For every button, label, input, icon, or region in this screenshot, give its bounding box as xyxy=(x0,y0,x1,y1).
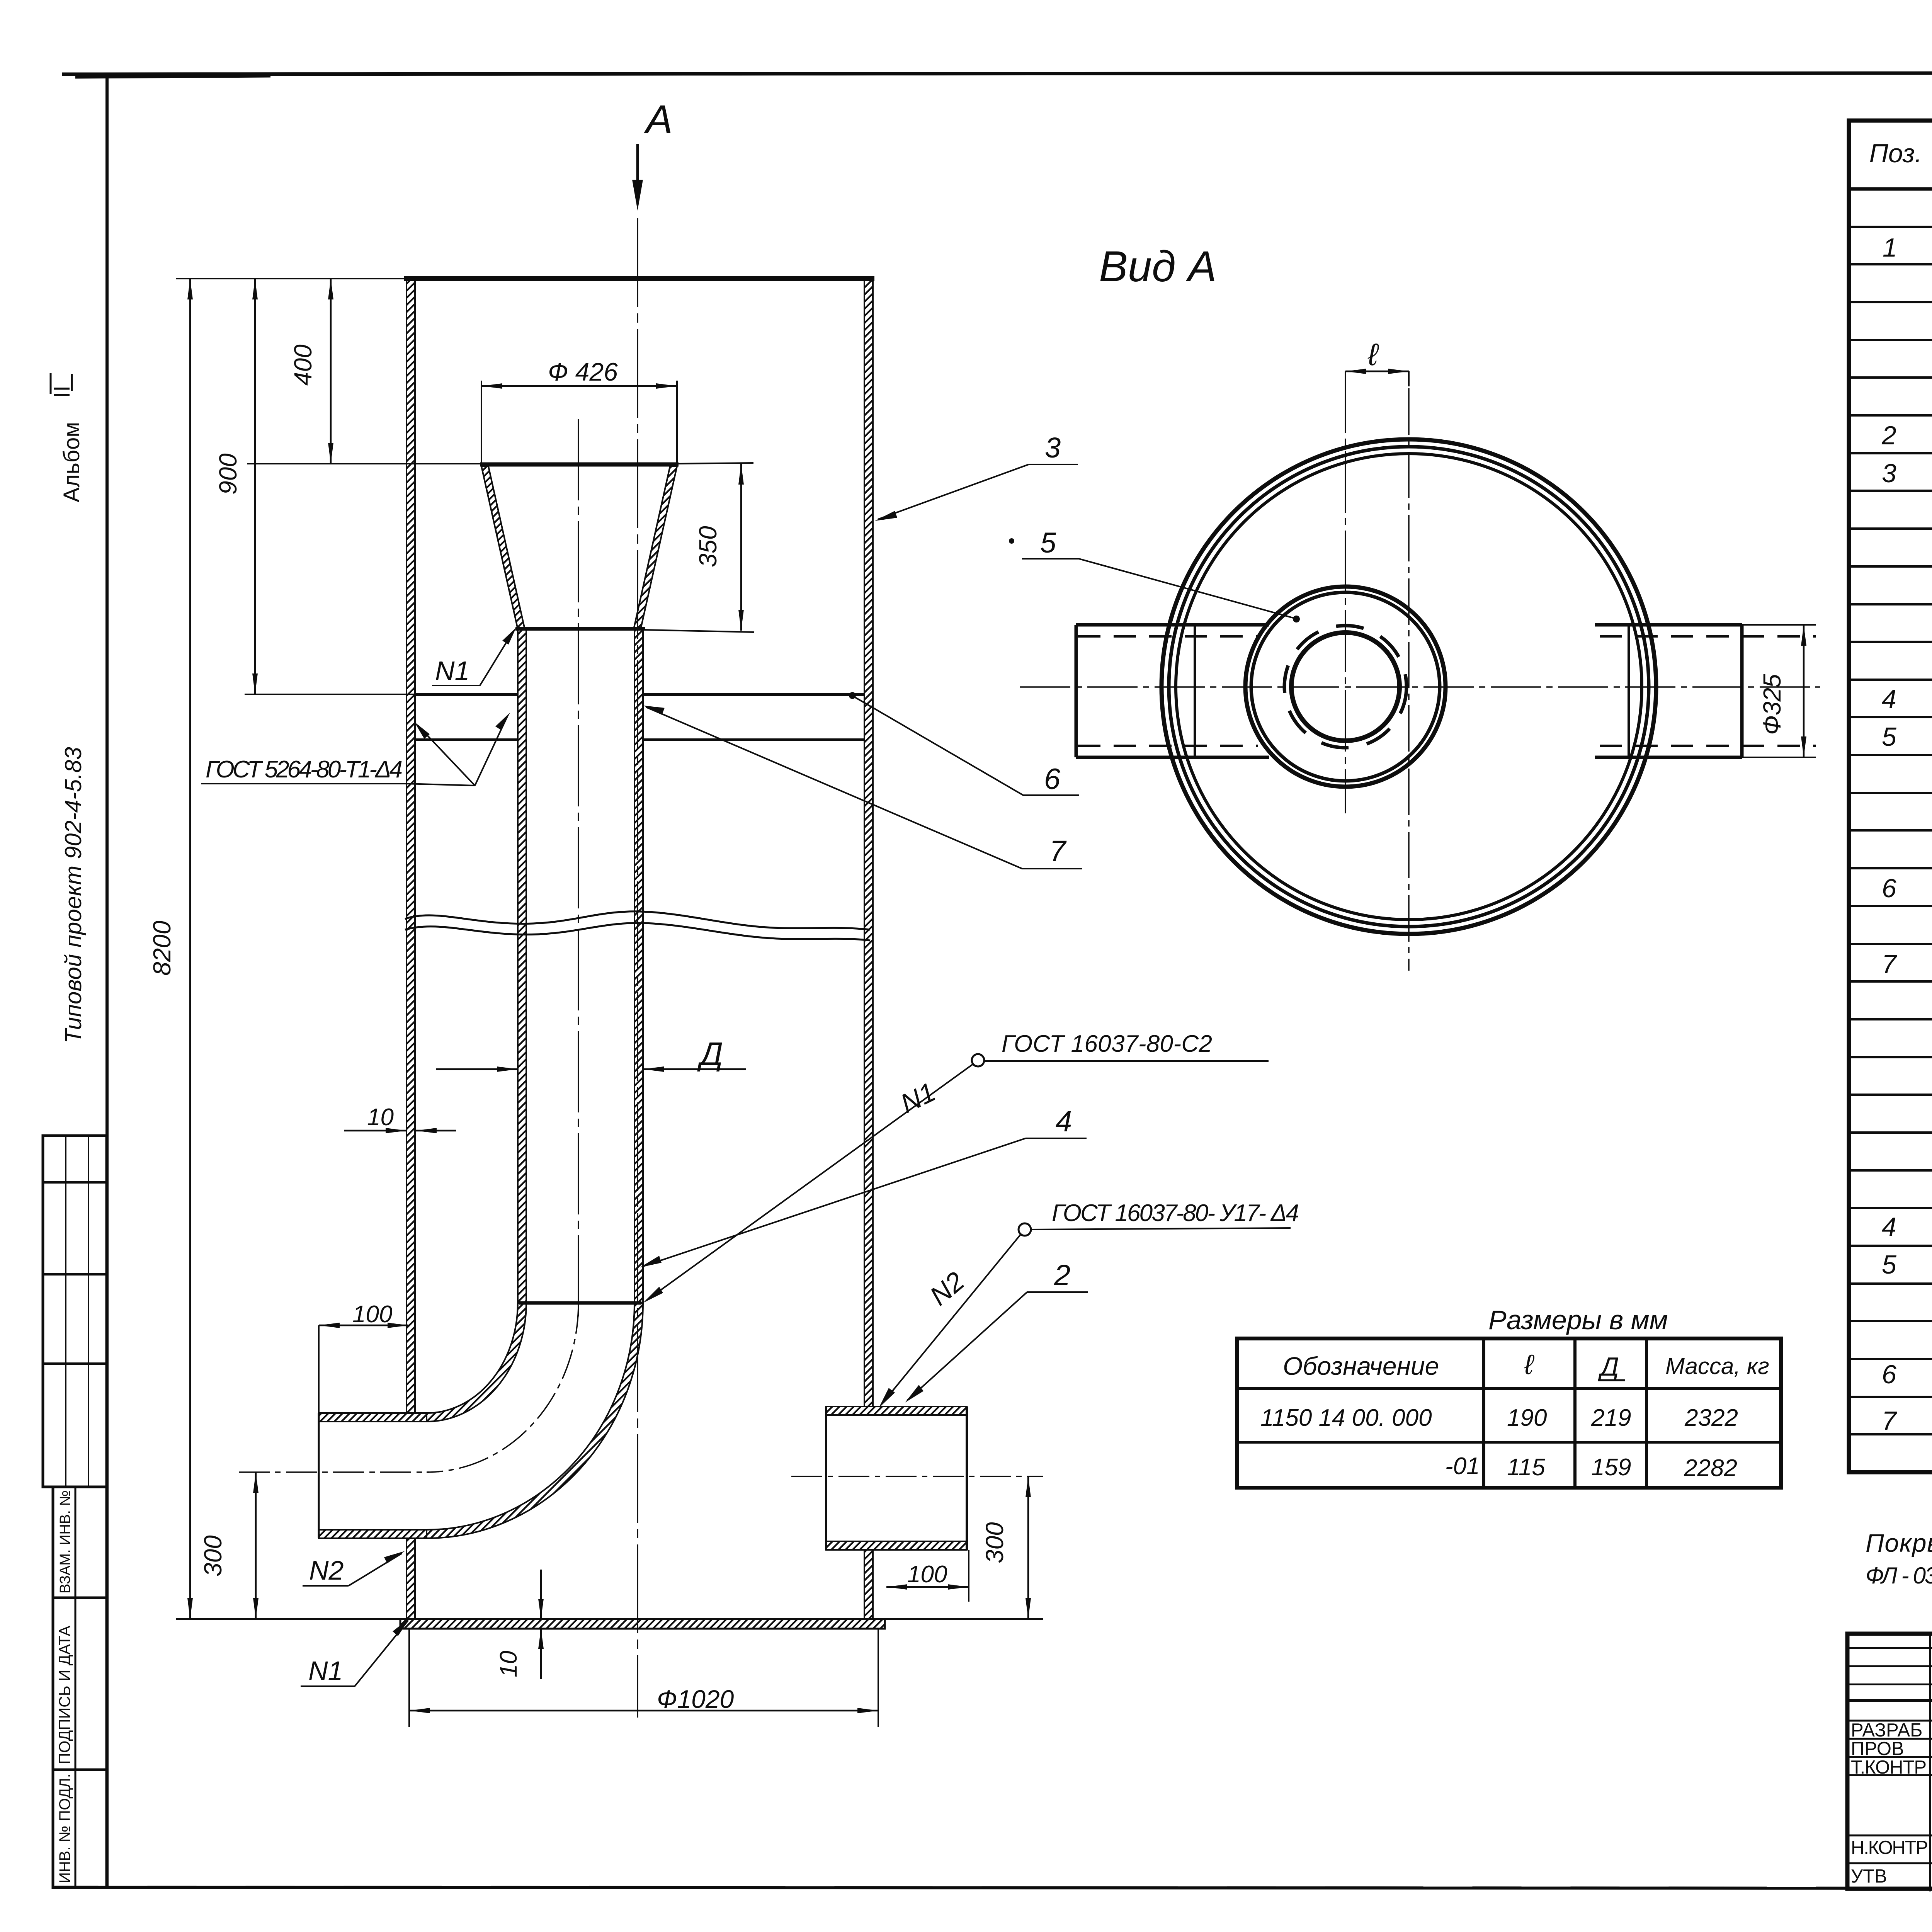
svg-text:РАЗРАБ: РАЗРАБ xyxy=(1851,1720,1922,1741)
svg-text:Д: Д xyxy=(1598,1352,1619,1381)
svg-text:4: 4 xyxy=(1056,1105,1072,1138)
dimension 300 left xyxy=(255,1472,257,1619)
band strip left lower line xyxy=(415,738,518,741)
title block left labels xyxy=(1851,1720,1932,1887)
label 5 (переход leader) xyxy=(1009,527,1300,622)
sleeve left end face xyxy=(318,1413,320,1538)
frame bottom border xyxy=(54,1887,1932,1889)
svg-text:5: 5 xyxy=(1882,722,1896,752)
svg-text:Т.КОНТР: Т.КОНТР xyxy=(1851,1757,1927,1778)
svg-text:159: 159 xyxy=(1591,1454,1631,1481)
svg-text:10: 10 xyxy=(367,1104,394,1131)
label N1 (funnel weld) xyxy=(432,628,516,686)
header texts xyxy=(1869,128,1932,185)
svg-text:Поз.: Поз. xyxy=(1869,139,1922,168)
svg-text:900: 900 xyxy=(214,453,242,495)
svg-text:4: 4 xyxy=(1882,684,1896,714)
right stub pipe (поз.2) top wall hatched xyxy=(826,1406,967,1415)
dimension 350 xyxy=(740,464,742,631)
funnel/pipe axis centerline xyxy=(578,419,579,1321)
svg-text:6: 6 xyxy=(1044,763,1061,796)
funnel top circle inner xyxy=(1251,592,1440,781)
svg-text:3: 3 xyxy=(1882,459,1896,488)
svg-text:7: 7 xyxy=(1049,835,1067,867)
wavy break line upper xyxy=(405,912,870,930)
band strip (полоса поз.6) left upper line xyxy=(415,693,518,696)
vessel axis centerline xyxy=(637,218,638,1718)
svg-text:ГОСТ 16037-80-С2: ГОСТ 16037-80-С2 xyxy=(1002,1031,1212,1057)
dimension Д xyxy=(436,1068,518,1070)
svg-text:Масса, кг: Масса, кг xyxy=(1665,1353,1769,1379)
svg-text:Ф325: Ф325 xyxy=(1758,674,1786,735)
svg-text:2282: 2282 xyxy=(1684,1455,1737,1481)
funnel top circle outer xyxy=(1245,587,1446,787)
svg-text:115: 115 xyxy=(1507,1454,1545,1481)
svg-text:1150 14 00. 000: 1150 14 00. 000 xyxy=(1260,1405,1432,1431)
funnel right wall hatched xyxy=(634,466,677,629)
parts table outer border xyxy=(1849,121,1932,1472)
funnel left wall hatched xyxy=(481,466,525,629)
svg-text:N1: N1 xyxy=(308,1656,343,1686)
dimension 300 right xyxy=(1027,1476,1029,1619)
sleeve pipe (поз.2) top wall hatched xyxy=(319,1413,427,1422)
svg-text:7: 7 xyxy=(1882,1406,1897,1435)
svg-text:219: 219 xyxy=(1591,1405,1631,1431)
svg-text:100: 100 xyxy=(352,1301,392,1328)
svg-text:190: 190 xyxy=(1507,1405,1547,1431)
sizes table borders xyxy=(1237,1338,1781,1488)
svg-text:2322: 2322 xyxy=(1684,1405,1738,1431)
right stub axis centerline xyxy=(791,1476,1043,1477)
svg-text:А: А xyxy=(643,97,673,142)
base plate (поз.1 лист) hatched xyxy=(400,1619,885,1629)
right stub pipe (поз.2) bottom wall hatched xyxy=(826,1541,967,1550)
svg-text:Вид А: Вид А xyxy=(1099,242,1217,291)
right stub right end face xyxy=(966,1406,968,1550)
sleeve axis centerline xyxy=(239,1471,429,1473)
svg-text:Размеры в мм: Размеры в мм xyxy=(1488,1305,1668,1335)
coating note xyxy=(1866,1529,1932,1600)
svg-text:Обозначение: Обозначение xyxy=(1283,1352,1439,1380)
dimension 900 xyxy=(254,279,256,694)
dimension 10 (base plate) xyxy=(540,1570,542,1619)
elbow (отвод поз.4) outer arc wall hatched xyxy=(427,1303,643,1538)
dimension Ф1020 xyxy=(409,1710,878,1712)
svg-text:6: 6 xyxy=(1882,874,1896,903)
label N1 + ГОСТ 16037-80-С2 (elbow weld) xyxy=(643,1031,1269,1303)
parts table header bottom xyxy=(1849,187,1932,191)
wavy break line lower xyxy=(405,923,870,940)
funnel (переход поз.5) top edge xyxy=(480,463,679,467)
svg-text:II: II xyxy=(49,386,75,398)
svg-text:8200: 8200 xyxy=(148,920,176,976)
svg-text:N1: N1 xyxy=(435,656,469,686)
dimension 100 (right stub) xyxy=(886,1586,969,1588)
svg-text:4: 4 xyxy=(1882,1212,1896,1242)
elbow axis centerline arc xyxy=(427,1303,578,1472)
shell middle ring xyxy=(1169,447,1649,927)
right stub top view xyxy=(1595,625,1816,757)
svg-text:300: 300 xyxy=(981,1522,1009,1563)
frame top border xyxy=(62,73,1932,74)
svg-text:2: 2 xyxy=(1054,1259,1070,1292)
vessel shell right wall (поз.3) hatched xyxy=(864,279,873,1406)
label 3 (shell leader) xyxy=(875,432,1078,521)
dimension 10 (shell wall) xyxy=(344,1130,406,1132)
table body text xyxy=(1881,191,1932,1473)
horizontal centerline xyxy=(1020,686,1820,688)
svg-text:-01: -01 xyxy=(1445,1453,1480,1480)
svg-text:Ф 426: Ф 426 xyxy=(548,357,618,386)
svg-text:300: 300 xyxy=(199,1535,227,1577)
title block outer border xyxy=(1847,1634,1932,1889)
svg-text:ℓ: ℓ xyxy=(1367,337,1379,372)
svg-text:100: 100 xyxy=(907,1561,947,1588)
svg-text:Альбом: Альбом xyxy=(59,422,84,502)
parts table row lines xyxy=(1849,227,1932,1434)
shell outer ring xyxy=(1162,439,1656,934)
inner pipe (поз.7) left wall hatched xyxy=(518,629,526,1303)
dimension 400 xyxy=(330,279,332,464)
title block vertical lines xyxy=(1929,1634,1931,1891)
svg-text:УТВ: УТВ xyxy=(1851,1866,1887,1887)
svg-text:ПРОВ: ПРОВ xyxy=(1851,1738,1904,1759)
pipe circle dashed (alternate execution) xyxy=(1284,626,1406,748)
svg-text:N2: N2 xyxy=(309,1555,344,1585)
dimension 100 (left sleeve) xyxy=(319,1325,408,1327)
svg-text:5: 5 xyxy=(1882,1250,1896,1279)
vessel axis centerline vertical xyxy=(1408,388,1410,971)
band strip right lower line xyxy=(643,738,864,741)
dimension ℓ xyxy=(1345,369,1409,386)
vessel top plate line xyxy=(404,276,874,281)
title block horizontal lines xyxy=(1847,1647,1932,1649)
svg-text:ℓ: ℓ xyxy=(1524,1349,1534,1380)
elbow joint weld line (N1) xyxy=(519,1301,641,1305)
svg-text:Покрытие эмаль ХВ-1100 ГО: Покрытие эмаль ХВ-1100 ГОСТ 6993 - 79 ·в… xyxy=(1866,1529,1932,1557)
band strip right upper line xyxy=(643,693,864,696)
sidebar cells upper block xyxy=(43,1136,107,1888)
funnel bottom weld line (N1) xyxy=(515,627,645,631)
svg-text:2: 2 xyxy=(1881,421,1896,450)
svg-text:3: 3 xyxy=(1045,432,1061,464)
inner pipe (поз.7) right wall hatched xyxy=(634,629,643,1303)
svg-text:1: 1 xyxy=(1883,233,1897,262)
label N2 + ГОСТ 16037-80-У17-Д4 (right stub weld) xyxy=(879,1200,1299,1408)
label N1 (base plate weld) xyxy=(301,1617,410,1686)
svg-text:400: 400 xyxy=(289,344,317,386)
svg-text:ПОДПИСЬ И ДАТА: ПОДПИСЬ И ДАТА xyxy=(56,1625,73,1764)
label 7 (труба leader) xyxy=(643,706,1082,869)
dimension Ф325 xyxy=(1742,625,1816,757)
right stub left end face xyxy=(825,1406,827,1550)
funnel axis extension line xyxy=(1345,371,1346,813)
sleeve pipe (поз.2) bottom wall hatched xyxy=(319,1530,427,1538)
svg-text:ФЛ - 03 к ГОСТ 9109 - 81 в: ФЛ - 03 к ГОСТ 9109 - 81 в цвет основног… xyxy=(1866,1563,1932,1588)
dimension 8200 xyxy=(189,279,191,1619)
svg-text:Типовой проект 902-4-5.83: Типовой проект 902-4-5.83 xyxy=(60,747,86,1043)
pipe circle solid xyxy=(1291,633,1400,741)
cell ПОДПИСЬ И ДАТА xyxy=(53,1598,107,1770)
svg-text:ИНВ. № ПОДЛ.: ИНВ. № ПОДЛ. xyxy=(56,1774,73,1883)
svg-text:Ф1020: Ф1020 xyxy=(657,1685,734,1713)
frame left border xyxy=(105,73,109,1888)
label N2 (left sleeve weld) xyxy=(303,1551,405,1586)
cell ИНВ.№ ПОДЛ. xyxy=(53,1770,107,1888)
label 6 (полоса leader) xyxy=(849,692,1079,796)
elbow (отвод поз.4) inner arc wall hatched xyxy=(427,1303,526,1422)
label ГОСТ 5264-80-Т1-Д4 (band weld) xyxy=(201,713,510,786)
svg-text:7: 7 xyxy=(1882,949,1897,979)
svg-text:6: 6 xyxy=(1882,1360,1896,1389)
shell inner ring xyxy=(1176,454,1642,920)
label 2 (right stub leader) xyxy=(905,1259,1088,1403)
sizes table texts xyxy=(1260,1349,1769,1481)
svg-text:350: 350 xyxy=(694,526,722,567)
left stub top view xyxy=(1076,625,1269,757)
label 4 (elbow leader) xyxy=(640,1105,1087,1267)
svg-text:ГОСТ 5264-80-Т1-Δ4: ГОСТ 5264-80-Т1-Δ4 xyxy=(206,756,403,783)
dimension Ф426 xyxy=(481,385,677,387)
svg-text:10: 10 xyxy=(495,1651,522,1677)
svg-text:5: 5 xyxy=(1040,527,1056,559)
cell ВЗАМ.ИНВ.№ xyxy=(53,1487,107,1598)
vessel shell left wall (поз.3) hatched xyxy=(406,279,415,1413)
extension lines xyxy=(176,278,406,279)
svg-text:ГОСТ 16037-80- У17- Δ4: ГОСТ 16037-80- У17- Δ4 xyxy=(1052,1200,1299,1226)
svg-text:Д: Д xyxy=(697,1036,723,1072)
svg-text:ВЗАМ. ИНВ. №: ВЗАМ. ИНВ. № xyxy=(57,1490,73,1594)
svg-text:Н.КОНТР: Н.КОНТР xyxy=(1851,1837,1928,1858)
